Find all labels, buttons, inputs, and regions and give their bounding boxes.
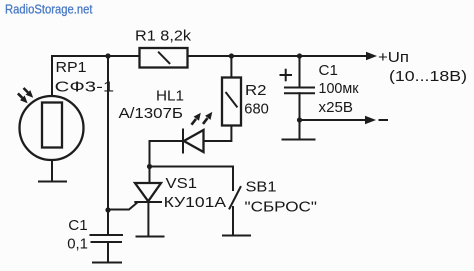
wire branch to gate / C1 0,1 (vertical x=108) (107, 56, 109, 234)
svg-text:(10...18В): (10...18В) (389, 68, 467, 85)
svg-text:100мк: 100мк (319, 80, 359, 97)
node junction C1 100мк top (297, 53, 302, 58)
capacitor C1 100мк polarity plus (281, 70, 292, 81)
label minus (380, 119, 388, 121)
ground below C1 0,1 (93, 262, 121, 264)
svg-text:C1: C1 (319, 62, 338, 79)
capacitor C1 100мк x25В (285, 88, 314, 94)
svg-text:VS1: VS1 (166, 175, 198, 192)
thyristor VS1 КУ101А (135, 183, 161, 202)
svg-text:680: 680 (244, 101, 268, 118)
svg-text:"СБРОС": "СБРОС" (245, 198, 318, 215)
node junction R2 top (229, 53, 234, 58)
svg-text:RadioStorage.net: RadioStorage.net (5, 2, 93, 16)
wire C1 100мк bottom lead (299, 93, 301, 139)
svg-text:R1 8,2k: R1 8,2k (135, 27, 192, 44)
arrow minus output (365, 116, 376, 124)
ground below C1 100мк (283, 139, 315, 141)
node A (LED cathode / VS1 anode / SB1) (147, 164, 152, 169)
wire node A to VS1 anode (149, 167, 151, 184)
svg-text:RP1: RP1 (56, 59, 87, 76)
wire R2 top lead (230, 56, 232, 78)
ground below RP1 (39, 181, 66, 183)
svg-text:СФ3-1: СФ3-1 (55, 79, 114, 96)
node junction gate / branch wire (105, 207, 110, 212)
svg-text:А/1307Б: А/1307Б (119, 105, 184, 122)
wire LED cathode to node A (150, 141, 184, 167)
svg-text:C1: C1 (68, 217, 88, 234)
capacitor C1 0,1 (91, 235, 123, 242)
photoresistor RP1 СФ3-1 (18, 88, 84, 160)
resistor R2 (222, 78, 241, 126)
node junction top bus / branch (105, 53, 110, 58)
ground below SB1 (223, 235, 250, 237)
arrow +Un output (366, 52, 377, 60)
wire SB1 from node A (150, 167, 234, 191)
svg-text:+Uп: +Uп (378, 49, 409, 66)
wire VS1 cathode lead (147, 202, 149, 236)
svg-text:0,1: 0,1 (67, 235, 88, 252)
wire top bus +Uп rail (52, 55, 370, 57)
wire C1 0,1 bottom lead (107, 242, 109, 262)
wire R2 bottom lead to LED anode (204, 126, 232, 142)
node junction minus bus (297, 117, 302, 122)
LED HL1 АЛ307Б (183, 112, 212, 153)
svg-text:R2: R2 (245, 82, 267, 99)
wire minus bus (300, 119, 370, 121)
svg-text:SB1: SB1 (246, 178, 277, 195)
svg-text:HL1: HL1 (156, 88, 184, 105)
wire VS1 gate (108, 203, 137, 210)
wire RP1 vertical lead (51, 56, 53, 181)
wire C1 100мк top lead (299, 56, 301, 87)
switch SB1 СБРОС (230, 187, 241, 235)
svg-text:КУ101А: КУ101А (164, 194, 227, 211)
svg-text:x25В: x25В (319, 99, 354, 116)
resistor R1 (140, 48, 188, 68)
ground below VS1 (137, 236, 164, 238)
